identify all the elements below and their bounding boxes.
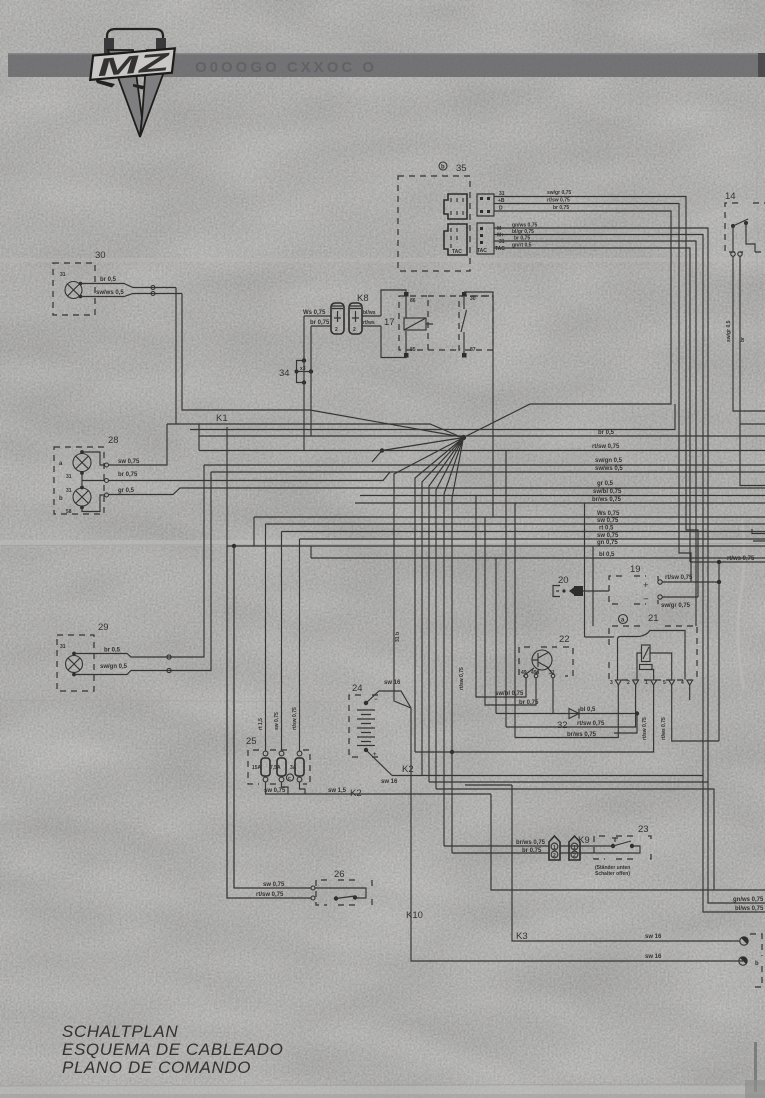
svg-text:5: 5	[663, 680, 666, 686]
wire 28 gr to bus gr	[109, 488, 461, 495]
K8 holder 2	[349, 303, 362, 334]
wire 35 pin31 sw/gr	[494, 197, 698, 598]
svg-text:sw 0,75: sw 0,75	[597, 518, 619, 524]
svg-text:br 0,75: br 0,75	[118, 472, 138, 478]
relay 17	[384, 292, 433, 358]
svg-text:rt/ws 0,75: rt/ws 0,75	[661, 717, 667, 740]
svg-text:7,5A: 7,5A	[270, 765, 281, 771]
svg-text:gn/ws 0,75: gn/ws 0,75	[512, 223, 538, 229]
svg-text:sw/ws 0,5: sw/ws 0,5	[595, 466, 623, 472]
wire 23 br/ws	[444, 845, 613, 847]
svg-text:sw/gr 0,75: sw/gr 0,75	[661, 603, 691, 609]
svg-text:TAC: TAC	[477, 248, 487, 254]
wire K3 riser	[465, 785, 740, 941]
fuse block K8	[331, 293, 369, 334]
header band	[8, 29, 765, 137]
svg-text:30: 30	[95, 250, 106, 261]
svg-text:4: 4	[681, 680, 684, 686]
svg-text:rt/sw 0,75: rt/sw 0,75	[592, 444, 620, 450]
wire rt/ws riser	[718, 562, 720, 741]
wire bl/ws branch	[703, 890, 765, 912]
svg-text:rt/sw 0,75: rt/sw 0,75	[292, 707, 298, 730]
svg-text:26: 26	[334, 869, 345, 880]
bus rt/ws right	[690, 561, 765, 563]
svg-text:31: 31	[549, 670, 555, 676]
wire 28 br to bus sw/ws	[109, 472, 391, 481]
headlamp 28	[54, 435, 119, 515]
svg-text:49: 49	[521, 670, 527, 676]
svg-text:gr 0,5: gr 0,5	[597, 481, 614, 487]
svg-text:sw/gn 0,5: sw/gn 0,5	[100, 664, 128, 670]
wire K10 battery minus down	[411, 708, 743, 961]
pennant V legs	[108, 50, 142, 137]
svg-text:TAC: TAC	[452, 249, 462, 255]
wire 35 pinD br	[464, 211, 672, 438]
svg-text:Ws 0,75: Ws 0,75	[597, 511, 620, 517]
switch 14	[725, 191, 765, 256]
svg-text:ESQUEMA DE CABLEADO: ESQUEMA DE CABLEADO	[62, 1040, 283, 1059]
svg-text:2: 2	[353, 327, 356, 333]
svg-text:sw 16: sw 16	[381, 779, 398, 785]
wire 26 rt/sw	[227, 546, 311, 898]
wire 35 31 br	[494, 241, 696, 626]
stand switch 23	[578, 824, 651, 877]
wire stub x311	[310, 546, 312, 558]
frame bracket b	[750, 934, 762, 987]
fold crease upper	[0, 258, 765, 262]
svg-text:gn/ws 0,75: gn/ws 0,75	[733, 897, 764, 903]
wire 35 M- gn/ws	[494, 228, 708, 890]
connector block 35	[398, 162, 470, 271]
battery 24	[349, 683, 411, 776]
plug K9 b	[569, 836, 580, 860]
bottom titles	[62, 1022, 283, 1077]
svg-text:22: 22	[559, 634, 570, 645]
svg-text:17: 17	[384, 317, 395, 328]
wire 22 pin31	[552, 678, 554, 714]
svg-text:sw 0,75: sw 0,75	[263, 882, 285, 888]
wire 29 sw/gn	[74, 472, 211, 675]
svg-text:gr 0,5: gr 0,5	[118, 488, 135, 494]
svg-text:br: br	[740, 337, 746, 342]
wire K8 ws feed down	[303, 316, 305, 451]
svg-text:58: 58	[66, 509, 72, 515]
svg-text:1: 1	[553, 845, 556, 851]
svg-text:85: 85	[410, 347, 416, 353]
svg-text:br 0,75: br 0,75	[519, 700, 539, 706]
wire 17 switch to bus	[464, 292, 493, 517]
wire 19 minus sw/gr	[662, 596, 698, 598]
right-side vertical crease	[738, 520, 744, 690]
svg-text:K3: K3	[516, 931, 528, 942]
wire 32 br/ws riser	[514, 503, 516, 738]
svg-text:O0OOGO CXXOC O: O0OOGO CXXOC O	[195, 59, 377, 76]
svg-text:sw 1,5: sw 1,5	[328, 788, 347, 794]
wire 35 pin+B rt/sw	[494, 204, 691, 583]
MZ plate	[88, 47, 177, 82]
svg-text:br 0,5: br 0,5	[104, 648, 121, 654]
svg-text:20: 20	[558, 575, 569, 586]
junction dots on buses	[232, 544, 236, 548]
svg-text:K10: K10	[406, 910, 423, 921]
wire to switch 26 rt/sw	[233, 546, 235, 888]
K8 holder 1	[331, 303, 344, 334]
wire 30 sw/ws	[81, 292, 183, 297]
svg-text:b: b	[59, 496, 63, 502]
wire vertical from 30 to K1 node	[167, 288, 462, 438]
MZ logo pennant	[88, 29, 177, 137]
svg-text:2: 2	[627, 680, 630, 686]
wire 32 rt/sw riser	[505, 451, 507, 728]
svg-text:−: −	[643, 594, 649, 605]
fuse box 25	[246, 736, 310, 784]
wire K8 br feed down	[310, 326, 312, 436]
bus ws 0,75	[254, 516, 765, 518]
svg-text:M−: M−	[497, 226, 504, 232]
svg-text:34: 34	[279, 368, 290, 379]
wire 26 sw	[234, 546, 311, 888]
wire K2 ground run	[491, 794, 765, 890]
wire vertical from 30 to node via y410	[182, 294, 462, 438]
wire level 782 to right column	[429, 781, 708, 783]
svg-text:28: 28	[108, 435, 119, 446]
bus sw/bl 0,75	[360, 495, 765, 497]
svg-text:br 0,75: br 0,75	[553, 205, 569, 211]
wire 29 br	[74, 465, 204, 659]
lamp 29	[57, 622, 109, 691]
wire K8 br in	[311, 325, 331, 327]
svg-text:K1: K1	[216, 413, 228, 424]
svg-text:D: D	[499, 206, 503, 212]
svg-text:br/ws 0,75: br/ws 0,75	[567, 732, 597, 738]
relay 17 coil loop	[381, 290, 406, 358]
flasher unit 22	[519, 634, 573, 678]
wire 21 pin4 stub	[689, 685, 691, 700]
svg-text:br 0,5: br 0,5	[100, 277, 117, 283]
junction on bus752	[450, 750, 454, 754]
gray band	[8, 53, 765, 77]
wire K8 bl/ws out	[362, 315, 381, 317]
wire fuse outputs sw 1,5	[266, 782, 492, 794]
wire 22 pin49 sw/bl	[476, 496, 526, 698]
svg-text:c: c	[288, 776, 291, 782]
svg-text:2: 2	[335, 327, 338, 333]
svg-text:sw 16: sw 16	[645, 934, 662, 940]
fold crease mid	[0, 540, 765, 546]
wire level 775 to right column	[422, 775, 703, 777]
svg-text:rt/sw 0,75: rt/sw 0,75	[665, 575, 693, 581]
ground connector K3	[740, 937, 748, 945]
svg-text:87: 87	[470, 347, 476, 353]
svg-text:31: 31	[66, 474, 72, 480]
svg-text:sw/ws 0,5: sw/ws 0,5	[96, 290, 124, 296]
svg-text:31: 31	[499, 239, 505, 245]
plug 35 upper inner	[444, 194, 467, 219]
svg-text:Ws 0,75: Ws 0,75	[303, 310, 326, 316]
bus gr 0,5	[460, 487, 765, 489]
svg-text:31: 31	[60, 272, 66, 278]
svg-text:14: 14	[725, 191, 736, 202]
plug K9 a	[549, 836, 560, 860]
plug 35 upper outer	[477, 194, 494, 216]
wire 20 to 19	[583, 590, 609, 592]
svg-text:x3: x3	[300, 366, 306, 372]
bus br 0,5	[199, 435, 765, 437]
wire stub x254	[253, 517, 255, 546]
wire 23 br	[452, 852, 621, 854]
plug 35 lower outer	[477, 223, 494, 254]
svg-text:sw 0,75: sw 0,75	[274, 712, 280, 730]
ignition contact arm	[585, 631, 686, 680]
svg-text:b: b	[755, 961, 759, 967]
junction diode	[635, 711, 639, 715]
svg-text:PLANO DE COMANDO: PLANO DE COMANDO	[62, 1058, 251, 1077]
wire 35 TAC gn/rt	[494, 248, 690, 562]
svg-text:sw 0,75: sw 0,75	[118, 459, 140, 465]
diode 32	[496, 709, 637, 732]
svg-text:TAC: TAC	[495, 246, 505, 252]
lamp 30	[53, 250, 106, 315]
svg-text:bl/ws: bl/ws	[363, 310, 376, 316]
svg-text:15A: 15A	[252, 765, 262, 771]
svg-text:rt 0,5: rt 0,5	[599, 526, 614, 532]
svg-text:+: +	[643, 580, 649, 591]
svg-text:sw 16: sw 16	[645, 954, 662, 960]
plug 35 lower inner	[444, 224, 467, 255]
svg-text:32: 32	[557, 720, 568, 731]
svg-text:21: 21	[648, 613, 659, 624]
svg-text:19: 19	[630, 564, 641, 575]
bus sw/ws 0,5	[211, 471, 765, 473]
wire K8 ws in	[304, 315, 331, 317]
plate shadow streaks	[95, 79, 115, 88]
wire br/ws branch down to 21 arm	[584, 503, 586, 637]
svg-text:br/ws 0,75: br/ws 0,75	[592, 497, 622, 503]
svg-text:bl 0,5: bl 0,5	[599, 552, 615, 558]
wire 30 br	[81, 284, 177, 290]
svg-text:bl/ws 0,75: bl/ws 0,75	[735, 906, 764, 912]
svg-text:rt 1,5: rt 1,5	[258, 718, 264, 730]
svg-text:br 0,5: br 0,5	[598, 430, 615, 436]
svg-text:25: 25	[246, 736, 257, 747]
svg-text:2: 2	[553, 853, 556, 859]
bus br/ws 0,75	[355, 502, 765, 504]
wire 19 plus rt/sw	[662, 581, 719, 583]
svg-text:rt/sw 0,75: rt/sw 0,75	[577, 721, 605, 727]
wire 32 bl riser	[495, 558, 497, 714]
svg-text:rt/sw 0,75: rt/sw 0,75	[256, 892, 284, 898]
svg-text:2: 2	[573, 853, 576, 859]
svg-text:br 0,75: br 0,75	[522, 848, 542, 854]
node K1	[216, 413, 466, 440]
svg-text:sw 16: sw 16	[384, 680, 401, 686]
node K1 to dot on bus rt/sw	[372, 438, 464, 463]
svg-text:30: 30	[470, 296, 476, 302]
svg-text:sw 0,75: sw 0,75	[597, 533, 619, 539]
svg-text:K2: K2	[350, 788, 362, 799]
wire fuse2 riser sw	[281, 532, 283, 752]
svg-text:br/ws 0,75: br/ws 0,75	[516, 840, 546, 846]
svg-text:31 b: 31 b	[395, 632, 401, 642]
wire 21 pin2 to rt/sw	[506, 685, 636, 727]
node K1 fan diagonals	[392, 438, 464, 854]
svg-text:3: 3	[610, 680, 613, 686]
svg-text:M+: M+	[497, 233, 504, 239]
svg-text:Schalter offen): Schalter offen)	[595, 871, 630, 877]
svg-text:gn/rt 0,5: gn/rt 0,5	[512, 243, 532, 249]
wire level 789 to right column	[436, 789, 714, 890]
bus rt/sw 0,75	[199, 424, 765, 451]
svg-text:b: b	[441, 165, 445, 171]
ignition switch 21	[585, 613, 698, 686]
wire gn/ws branch	[708, 890, 765, 903]
svg-text:br 0,75: br 0,75	[310, 320, 330, 326]
svg-text:86: 86	[410, 298, 416, 304]
svg-text:31: 31	[499, 191, 505, 197]
wire fuse3 riser rt/sw	[299, 539, 301, 751]
wire 21 pin5 to rt/ws	[672, 685, 719, 741]
svg-text:29: 29	[98, 622, 109, 633]
svg-text:rt/sw 0,75: rt/sw 0,75	[547, 198, 570, 204]
svg-text:SCHALTPLAN: SCHALTPLAN	[62, 1022, 178, 1041]
bus rt 0,5	[282, 531, 765, 533]
svg-text:rt/ws 0,75: rt/ws 0,75	[727, 556, 755, 562]
svg-text:sw/gr 0,5: sw/gr 0,5	[726, 320, 732, 342]
svg-text:sw/bl 0,75: sw/bl 0,75	[593, 489, 622, 495]
svg-text:23: 23	[638, 824, 649, 835]
wire fuse1 riser rt	[265, 524, 267, 751]
svg-text:bl 0,5: bl 0,5	[580, 707, 596, 713]
svg-text:bl/gr 0,75: bl/gr 0,75	[512, 229, 534, 235]
svg-text:rt/sw 0,75: rt/sw 0,75	[642, 717, 648, 740]
lighting switch 26	[311, 869, 372, 905]
wire to switch 26 sw	[226, 427, 228, 898]
wire upper mid	[190, 404, 675, 430]
bus gn 0,75	[227, 545, 765, 547]
svg-text:rt/sw 0,75: rt/sw 0,75	[459, 667, 465, 690]
wire 21 pin3 to br/ws	[515, 685, 618, 738]
svg-text:3A: 3A	[290, 765, 297, 771]
svg-text:49a: 49a	[531, 670, 540, 676]
svg-text:−: −	[374, 697, 378, 703]
svg-text:+B: +B	[498, 198, 505, 204]
bus sw 0,75 b	[300, 538, 765, 540]
bus sw 0,75 a	[266, 523, 765, 525]
wire 28 sw to bus br	[109, 424, 168, 465]
svg-text:K2: K2	[402, 764, 414, 775]
pin triangles	[615, 680, 692, 685]
svg-text:rt/ws: rt/ws	[363, 320, 375, 326]
relay 17 switch side	[428, 292, 493, 358]
svg-text:gn 0,75: gn 0,75	[597, 540, 618, 546]
wire 21 pin1 to bus752	[415, 685, 654, 752]
junction 34	[279, 358, 313, 384]
wire 14 right terminal	[740, 256, 765, 541]
svg-text:24: 24	[352, 683, 363, 694]
bus sw/gn 0,5	[204, 464, 765, 466]
svg-text:1: 1	[645, 680, 648, 686]
svg-text:31: 31	[66, 488, 72, 494]
bus bl 0,5	[311, 557, 765, 559]
bottom page edge	[0, 1086, 765, 1094]
wire 22 pin49a br	[485, 517, 536, 705]
svg-text:sw/gn 0,5: sw/gn 0,5	[595, 458, 623, 464]
plug 20	[553, 575, 583, 597]
ignition key symbol	[642, 645, 651, 662]
svg-text:sw/bl 0,75: sw/bl 0,75	[495, 691, 524, 697]
svg-text:35: 35	[456, 163, 467, 174]
wire 35 M+ bl/gr	[494, 235, 703, 891]
ground connector K10	[739, 957, 747, 965]
svg-text:sw 0,75: sw 0,75	[264, 788, 286, 794]
svg-text:br 0,75: br 0,75	[514, 236, 530, 242]
wire gn branch down to 21	[592, 546, 594, 626]
svg-text:31: 31	[60, 644, 66, 650]
regulator 19	[609, 564, 662, 605]
wire K8 rt/ws out	[362, 325, 381, 327]
svg-text:sw/gr 0,75: sw/gr 0,75	[547, 190, 571, 196]
wire 14 left terminal	[733, 256, 765, 411]
